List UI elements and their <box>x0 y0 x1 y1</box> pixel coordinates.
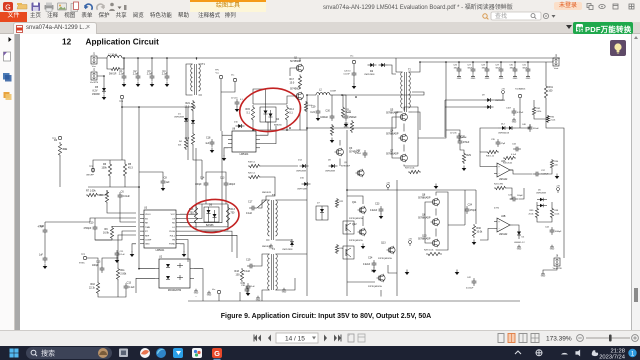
ground U8 <box>222 156 227 162</box>
label D4 part <box>274 123 282 126</box>
svg-text:C42: C42 <box>467 277 472 279</box>
capacitor C40 330uF <box>528 124 533 132</box>
svg-text:COMP: COMP <box>145 239 152 241</box>
wire L2 node down <box>342 95 343 106</box>
label Q12 part <box>349 239 363 242</box>
wire U3 ss <box>95 231 136 240</box>
wire J5 sense <box>545 62 547 84</box>
wire D2 to T2 <box>388 65 397 74</box>
svg-text:Vcc: Vcc <box>212 289 215 291</box>
resistor R33 26.0k <box>503 156 516 159</box>
wire Vcc rail <box>221 82 235 92</box>
svg-text:FB: FB <box>172 239 175 241</box>
label Q12 <box>352 223 357 226</box>
svg-text:ZXPRQM03CA: ZXPRQM03CA <box>378 257 392 260</box>
label R29 <box>466 154 471 157</box>
label T3 part <box>262 192 272 194</box>
label C107 <box>506 107 512 109</box>
label Q6 part <box>418 217 431 220</box>
ground C34b <box>550 245 555 251</box>
resistor R16 750 <box>194 205 197 225</box>
svg-text:R39: R39 <box>530 210 535 212</box>
label C37 value <box>541 173 549 175</box>
label T04 <box>515 87 526 90</box>
label C34b <box>545 226 550 228</box>
label C35 <box>491 139 496 141</box>
wire L2 to output <box>330 94 342 96</box>
ground under C26 <box>457 74 462 80</box>
label R32 <box>550 117 555 119</box>
label R43 <box>235 270 240 273</box>
svg-text:SS: SS <box>145 218 148 220</box>
search pill <box>26 347 112 359</box>
label C39 <box>241 282 246 285</box>
svg-text:SMP4025: SMP4025 <box>262 192 272 194</box>
wire driver to gates <box>253 89 266 107</box>
svg-text:C24: C24 <box>468 203 473 206</box>
capacitor C14 100pF <box>195 180 208 188</box>
label R24 <box>494 184 503 186</box>
svg-text:2.00k: 2.00k <box>120 273 127 276</box>
label C11 <box>120 251 125 253</box>
label C41 <box>508 194 513 196</box>
svg-text:D1: D1 <box>178 113 182 115</box>
svg-text:CMPD2838: CMPD2838 <box>282 249 293 251</box>
label C10 <box>89 221 94 224</box>
wire bank h 282 <box>347 281 375 283</box>
svg-text:750: 750 <box>190 212 195 215</box>
resistor R42 4.99k <box>532 106 535 116</box>
ground under C39 <box>246 291 251 297</box>
svg-text:D10: D10 <box>234 121 239 123</box>
svg-text:1000pF: 1000pF <box>555 231 563 233</box>
wire T4 sec bot out <box>279 278 295 290</box>
testpoint Vcc top <box>233 78 236 81</box>
junction n3 <box>445 61 447 63</box>
label Q11 <box>352 201 357 204</box>
resistor R40 <box>330 124 333 136</box>
label R22b value <box>344 127 349 129</box>
svg-text:U2: U2 <box>159 256 163 259</box>
tray <box>515 351 521 354</box>
svg-text:C30: C30 <box>325 109 330 112</box>
svg-text:HO: HO <box>172 223 176 225</box>
ground J6 <box>541 272 546 278</box>
ground bank2 top <box>434 184 439 190</box>
junction caps3 <box>486 61 488 63</box>
svg-text:C25: C25 <box>347 110 352 113</box>
label R33 <box>503 163 512 165</box>
wire TP5 rail <box>220 79 222 131</box>
wire Q11 Q12 rail <box>362 216 364 226</box>
svg-text:D5: D5 <box>95 86 99 89</box>
label C28 value <box>482 68 488 70</box>
svg-text:1uF: 1uF <box>39 255 44 257</box>
wire bus to C2 <box>137 58 139 73</box>
window buttons <box>585 2 640 11</box>
ground under C24c <box>372 268 377 274</box>
label C24c <box>368 256 373 259</box>
wire R20 right <box>261 177 275 200</box>
svg-text:45.3: 45.3 <box>128 167 133 170</box>
wire ref join <box>537 219 552 222</box>
diode D1 CMPD2838 <box>184 116 188 124</box>
wire R24 chain <box>507 188 512 199</box>
label R42 value <box>536 111 541 113</box>
junction c4 <box>166 57 168 59</box>
svg-text:C29: C29 <box>495 64 500 66</box>
svg-text:TP2: TP2 <box>81 254 86 256</box>
ground under D5 <box>102 95 107 101</box>
svg-text:330uF: 330uF <box>454 68 460 70</box>
quick access icons <box>0 0 130 13</box>
context tab highlight 绘图工具 <box>190 0 266 12</box>
resistor R18 5.1 <box>248 164 261 167</box>
svg-text:GND: GND <box>513 78 518 80</box>
label R39 value <box>529 213 534 215</box>
label L2 value <box>330 90 336 92</box>
resistor R43 100 <box>240 268 243 282</box>
label D4 <box>276 118 280 121</box>
wire C37 to R34 <box>542 169 553 174</box>
svg-text:R7 1.00k: R7 1.00k <box>86 190 96 193</box>
testpoint TP5 <box>219 75 222 78</box>
label C29 value <box>496 68 501 70</box>
svg-text:R28 10.0k: R28 10.0k <box>424 250 434 252</box>
wire U4A out <box>510 170 533 174</box>
wire Q bank rail <box>403 124 405 132</box>
capacitor C2 2.2uF <box>133 73 141 81</box>
resistor R20 5.1 <box>248 175 261 178</box>
transformer T4 SMP4025 <box>266 254 279 290</box>
label C37 <box>541 170 546 172</box>
svg-text:搜索: 搜索 <box>41 349 55 358</box>
label C19 value <box>244 270 251 273</box>
svg-text:GND: GND <box>256 300 261 302</box>
svg-text:R43: R43 <box>235 270 240 273</box>
wire C25b top <box>446 130 460 138</box>
svg-text:+: + <box>498 166 500 169</box>
svg-text:C37: C37 <box>541 170 546 172</box>
svg-text:C17: C17 <box>248 200 253 203</box>
wire T2 sec bot <box>412 112 420 130</box>
svg-text:0.22uF: 0.22uF <box>363 264 371 266</box>
svg-text:SI7886ADP: SI7886ADP <box>386 153 399 156</box>
optocoupler U2 MOCD207M <box>155 256 194 293</box>
svg-text:L2: L2 <box>319 88 322 91</box>
capacitor C37 0.047uF <box>533 172 541 177</box>
transistor Q9 SI7850DP <box>356 169 365 177</box>
svg-text:GND: GND <box>541 276 546 278</box>
label D1 part <box>174 117 184 119</box>
label C34 <box>512 143 517 145</box>
wire U3 pull <box>180 235 237 258</box>
label R4 <box>179 141 183 143</box>
svg-text:330uF: 330uF <box>510 68 516 70</box>
resistor R22b 10.1k <box>350 120 353 133</box>
wire R8 to IC <box>107 204 136 213</box>
wire Vcc aux down <box>353 64 355 70</box>
wire bus to C26 <box>458 62 460 66</box>
ground under C27 <box>471 74 476 80</box>
label C31 <box>522 64 527 66</box>
capacitor C17 0.1uF <box>249 206 257 211</box>
wire R7 to R8 <box>99 190 107 195</box>
label Q3 part <box>349 151 360 154</box>
label Vcc bottom <box>212 289 215 291</box>
resistor R21 10.0 <box>191 100 194 112</box>
annotation red ellipse 1 <box>237 85 303 135</box>
diode D10b <box>236 124 245 128</box>
wire T4 sec top out <box>279 253 307 255</box>
diode D6 BAS56 pair <box>204 207 219 222</box>
op-amp U4A LM6142 <box>494 160 513 181</box>
label Q5 part <box>386 112 399 115</box>
capacitor C13 0.1uF <box>124 283 135 291</box>
label D6 part <box>206 224 214 227</box>
label D3 <box>186 119 190 122</box>
label Q4 <box>390 129 394 132</box>
label C28 <box>481 64 486 66</box>
label D5 voltage <box>93 90 98 93</box>
svg-text:100k: 100k <box>102 167 108 170</box>
label R5 <box>128 163 132 166</box>
svg-text:R42: R42 <box>536 108 541 110</box>
wire vertical rail A <box>138 107 140 187</box>
svg-text:−: − <box>498 173 500 176</box>
svg-text:G: G <box>214 349 220 358</box>
wire Q6-Q10 rail <box>435 229 437 237</box>
svg-text:47pF: 47pF <box>501 143 506 145</box>
wire U4B out net <box>513 225 519 229</box>
label C16 <box>40 225 45 228</box>
svg-text:D16: D16 <box>300 177 305 179</box>
svg-text:4.99k: 4.99k <box>494 208 499 210</box>
label C25 <box>347 110 352 113</box>
login pill <box>554 2 582 11</box>
svg-text:REF: REF <box>145 235 150 237</box>
svg-text:+5V: +5V <box>501 88 505 90</box>
svg-text:Q3: Q3 <box>349 147 353 150</box>
label C27 <box>467 64 472 66</box>
heading section number <box>62 38 72 47</box>
svg-text:BAS56: BAS56 <box>206 224 214 227</box>
wire long rail x397 <box>396 180 398 296</box>
svg-text:5.1: 5.1 <box>289 112 293 115</box>
ground under C29 <box>499 74 504 80</box>
active document tab <box>13 22 97 34</box>
svg-text:C107: C107 <box>506 107 512 109</box>
transistor Q7 SI7886ADP <box>399 154 408 162</box>
capacitor C16b 0.1 <box>235 99 240 107</box>
svg-text:470pF: 470pF <box>470 210 477 212</box>
ground under C12 <box>43 264 48 270</box>
junction c2 <box>137 57 139 59</box>
svg-text:Q6: Q6 <box>422 213 426 216</box>
label Q10 part <box>418 238 431 241</box>
wire C6 to IC <box>120 200 136 222</box>
label Q10 <box>422 234 427 237</box>
svg-text:Vcc: Vcc <box>350 56 355 58</box>
resistor R31 100 <box>544 84 547 100</box>
svg-text:D9: D9 <box>482 94 486 96</box>
op-amp U3 LM5041 controller <box>140 207 180 253</box>
heading title <box>86 38 160 47</box>
svg-text:R17: R17 <box>290 78 295 81</box>
resistor R28 10.0k <box>426 252 442 255</box>
sidebar <box>0 34 15 330</box>
label C2 <box>133 70 137 73</box>
wire T1 taps <box>186 64 189 95</box>
wire Q3 source down <box>339 159 341 167</box>
label R31 <box>548 86 553 89</box>
svg-text:Vcc: Vcc <box>216 73 219 75</box>
wire D9 rail <box>444 100 446 137</box>
svg-text:+5V: +5V <box>408 238 412 240</box>
junction ell2b <box>286 129 288 131</box>
svg-text:2.2uF: 2.2uF <box>147 73 153 75</box>
wire node to IC pin <box>112 225 136 228</box>
label C29 <box>495 64 500 66</box>
wire sense top <box>480 128 498 152</box>
wire long rail x465 <box>464 190 466 225</box>
label C22 <box>357 150 362 152</box>
wire Q11 top <box>347 196 363 204</box>
label R19 value <box>185 137 190 140</box>
svg-text:47uF: 47uF <box>462 137 467 139</box>
label TP5 vcc <box>216 73 219 75</box>
junction tp4bus <box>138 106 140 108</box>
capacitor C3 2.2uF <box>147 73 155 81</box>
svg-text:J2: J2 <box>93 69 96 71</box>
capacitor C107 0.22uF <box>512 108 517 116</box>
transistor Q1 SI7456DP <box>295 64 304 72</box>
label D9 part <box>495 100 505 102</box>
resistor R15 5.1 <box>251 105 254 122</box>
ground under C29 <box>316 116 321 122</box>
svg-text:U8: U8 <box>232 128 236 131</box>
ground under C2 <box>136 82 141 88</box>
label C41 value <box>517 195 523 197</box>
label R4 value <box>178 144 182 146</box>
label C15 <box>96 260 101 263</box>
svg-text:J1: J1 <box>93 53 96 55</box>
resistor R22 10 <box>335 198 338 208</box>
wire R14 bottom <box>286 122 288 130</box>
wire U3 ho <box>180 131 222 223</box>
label R32 value <box>550 120 555 122</box>
diode D3 <box>191 118 195 126</box>
ground R34 <box>555 174 560 180</box>
wire C10 R9 to IC <box>95 232 112 240</box>
resistor R16b 10.0 <box>304 101 307 112</box>
label D5 power <box>92 93 100 96</box>
testpoint Vcc aux <box>352 60 355 63</box>
label R14 <box>289 108 294 111</box>
wire T2 pri top <box>396 58 399 72</box>
label R16 <box>189 208 194 211</box>
label C22 value <box>355 153 362 155</box>
diode D11 CMPD2838 <box>290 239 294 247</box>
wire bus to C27 <box>472 62 474 66</box>
junction n1 <box>306 127 308 129</box>
capacitor C39 <box>246 283 251 291</box>
label C31 value <box>523 68 528 70</box>
svg-text:R14: R14 <box>289 108 294 111</box>
capacitor C42 0.022uF <box>472 278 477 286</box>
svg-text:C1: C1 <box>119 70 123 73</box>
ground U3 gnd <box>130 252 135 258</box>
resistor R39 20.0k <box>535 207 538 219</box>
wire J6 link <box>543 266 557 272</box>
svg-text:0.022uF: 0.022uF <box>466 288 474 290</box>
wire bus to C30 <box>514 62 516 66</box>
label C16b value <box>240 99 244 101</box>
label Vcc top <box>231 74 234 76</box>
wire C16 rail <box>44 222 46 227</box>
svg-text:Q5: Q5 <box>390 108 394 111</box>
wire Q13 links <box>388 265 397 273</box>
wire T2 center tap <box>342 92 424 95</box>
svg-text:T1: T1 <box>202 63 205 66</box>
capacitor C25 1500uF <box>344 113 358 121</box>
svg-text:GND: GND <box>194 293 199 295</box>
label R21 <box>186 102 191 105</box>
label T3 <box>272 194 275 197</box>
transistor Q10 SI7886ADP <box>431 239 440 247</box>
white page <box>20 34 631 330</box>
svg-text:R24 4.99k: R24 4.99k <box>494 184 503 186</box>
window title <box>323 2 513 11</box>
resistor R26 10 <box>335 244 338 254</box>
svg-text:VCC: VCC <box>171 214 176 216</box>
svg-text:C26: C26 <box>453 64 458 66</box>
svg-text:−: − <box>498 228 500 231</box>
label C42 <box>467 277 472 279</box>
label R39 <box>530 210 535 212</box>
svg-text:GND: GND <box>471 78 476 80</box>
capacitor C34 0.1uF <box>513 147 521 152</box>
label C18 <box>206 136 211 139</box>
capacitor C12 1uF <box>39 255 47 263</box>
label C6 <box>121 191 125 194</box>
label R30 value <box>476 231 483 234</box>
svg-text:C23: C23 <box>375 202 380 205</box>
wire U3 fb <box>180 240 188 262</box>
svg-text:C20 10: C20 10 <box>344 70 351 72</box>
label Q7 <box>390 149 394 152</box>
junction phase <box>306 94 308 96</box>
resistor R30 10.0k <box>472 224 475 238</box>
svg-text:SI7850DP: SI7850DP <box>341 165 351 167</box>
ground bottom a <box>207 291 212 297</box>
diode D7 BAS56 boxed <box>316 206 328 220</box>
label D16 <box>300 177 305 179</box>
wire phase to L2 <box>300 95 316 130</box>
label C42 value <box>466 288 474 290</box>
purple lightbulb floating icon <box>610 40 626 56</box>
transistor Q4 SI7886ADP <box>399 134 408 142</box>
svg-text:+5V: +5V <box>556 185 560 187</box>
capacitor C29 68uF <box>499 66 504 74</box>
wire T3 pri top <box>257 200 266 208</box>
label R42 <box>536 108 541 110</box>
label Q9 <box>344 162 348 164</box>
testpoint T04 <box>518 94 521 97</box>
svg-text:C19: C19 <box>246 258 251 261</box>
ground under C11 <box>115 258 120 264</box>
ground under C30 <box>513 74 518 80</box>
